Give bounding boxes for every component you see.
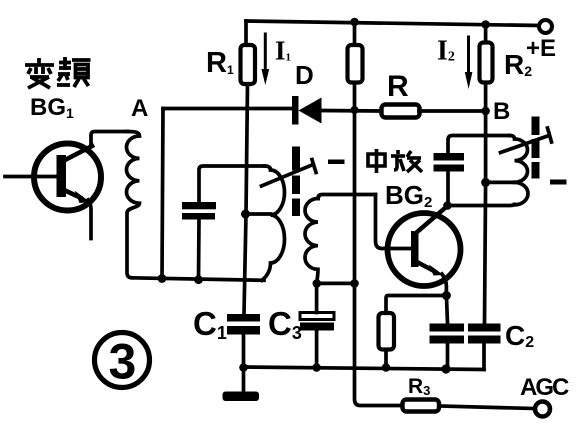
junction dot AGC bus left bbox=[313, 279, 322, 288]
wire R2 bottom lead bbox=[484, 83, 488, 112]
wire R3 to AGC terminal bbox=[439, 406, 534, 409]
wire T2 secondary top to BG2 base bbox=[318, 195, 376, 199]
svg-text:3: 3 bbox=[109, 334, 137, 390]
wire BG2 base feed bbox=[376, 195, 411, 249]
wire BG2 emitter to node bbox=[442, 274, 446, 296]
resistor R2 bbox=[480, 43, 493, 83]
transistor BG2 circle bbox=[388, 213, 461, 286]
diode D triangle bbox=[299, 98, 322, 124]
capacitor C1 plates bbox=[227, 314, 260, 322]
wire diode to R bbox=[321, 109, 381, 113]
transistor BG1 emitter arrowhead bbox=[75, 191, 91, 204]
junction dot bus A bbox=[158, 274, 167, 283]
resistor (AGC bias, unlabeled) bbox=[348, 45, 363, 83]
junction dot top rail left bbox=[350, 18, 359, 27]
wire C2a top lead bbox=[446, 296, 447, 324]
junction dot ground Re bbox=[382, 363, 391, 372]
wire mid resistor top lead bbox=[353, 22, 357, 45]
resistor R3 bbox=[403, 400, 440, 412]
resistor emitter (unlabeled) bbox=[379, 313, 395, 350]
svg-text:AGC: AGC bbox=[520, 374, 569, 401]
resistor R1 bbox=[241, 45, 256, 84]
svg-text:BG2: BG2 bbox=[385, 180, 432, 211]
wire +E top rail bbox=[246, 21, 539, 26]
svg-text:C1: C1 bbox=[193, 305, 227, 343]
capacitor C3 plates bbox=[300, 313, 334, 320]
junction dot AGC bus right bbox=[350, 279, 359, 288]
wire T3 tap bbox=[486, 181, 515, 185]
wire C3 top lead bbox=[315, 283, 319, 312]
wire C1 bottom lead bbox=[242, 335, 246, 368]
transistor BG2 emitter arrowhead bbox=[429, 265, 444, 276]
wire C3 bottom lead bbox=[315, 331, 319, 368]
wire node B vertical (B to C2 right) bbox=[485, 111, 486, 323]
wire C2a bottom lead bbox=[446, 344, 450, 370]
inductor L1 (BG1 collector coil) bbox=[127, 132, 140, 278]
current arrow I2 bbox=[467, 37, 470, 72]
wire AGC vertical (resistor bottom to R3) bbox=[355, 83, 403, 406]
wire node A vertical bbox=[162, 109, 163, 279]
junction dot top rail right bbox=[481, 20, 490, 29]
transistor BG2 collector bbox=[416, 208, 446, 234]
wire emitter node to resistor bbox=[386, 296, 446, 313]
svg-text:B: B bbox=[493, 98, 510, 125]
inductor T2 secondary bbox=[305, 199, 318, 284]
terminal +E bbox=[539, 20, 552, 33]
junction dot T3 tap bbox=[481, 178, 490, 187]
wire R to node B bbox=[419, 109, 486, 113]
dash mark T2 bbox=[328, 160, 345, 165]
junction dot T2 tap bbox=[241, 210, 250, 219]
wire T2 primary tap bbox=[246, 212, 271, 216]
wire ground rail bottom bbox=[244, 367, 485, 370]
arrow T2 trimmer bbox=[262, 165, 314, 187]
capacitor tank C (T2 primary, unlabeled) plates bbox=[182, 202, 216, 209]
wire R2 top lead bbox=[484, 25, 488, 43]
junction dot diode line bbox=[351, 106, 359, 114]
transistor BG1 base lead bbox=[5, 175, 55, 179]
svg-text:A: A bbox=[131, 95, 148, 122]
svg-text:C2: C2 bbox=[505, 320, 534, 351]
wire tank cap top lead bbox=[199, 166, 265, 202]
junction dot BG2 collector node bbox=[443, 201, 452, 210]
label 中放 (hand strokes) bbox=[368, 149, 422, 173]
wire emitter resistor bottom lead bbox=[384, 350, 388, 369]
junction dot bus cap bbox=[194, 275, 203, 284]
wire T3 cap top lead + tank top rail bbox=[448, 136, 510, 154]
svg-text:I2: I2 bbox=[437, 36, 455, 67]
current arrow I1 bbox=[264, 34, 267, 69]
junction dot emitter node bbox=[442, 291, 451, 300]
ground symbol stub bbox=[242, 368, 246, 392]
dash mark T3 bbox=[550, 180, 567, 185]
transistor BG1 collector bbox=[63, 146, 92, 161]
core T3 (dashed bar) bbox=[532, 117, 540, 136]
resistor R bbox=[382, 105, 420, 118]
junction dot ground C2a bbox=[441, 364, 450, 373]
wire T3 tank bottom rail bbox=[448, 204, 515, 205]
wire C2b bottom lead bbox=[482, 344, 486, 370]
svg-text:I1: I1 bbox=[275, 36, 291, 66]
transistor BG2 emitter bbox=[417, 262, 433, 271]
arrow T3 trimmer bbox=[501, 136, 550, 153]
wire R1 top lead bbox=[244, 21, 248, 45]
svg-text:R1: R1 bbox=[206, 47, 234, 79]
svg-text:+E: +E bbox=[526, 35, 556, 62]
label 变频 (hand strokes) bbox=[25, 57, 91, 88]
inductor T3 primary bbox=[510, 136, 529, 205]
transistor BG1 base bar bbox=[57, 155, 67, 197]
junction dot ground C3 bbox=[312, 363, 321, 372]
wire tank cap bottom lead bbox=[197, 219, 201, 280]
wire BG1 collector to coil bbox=[91, 132, 127, 146]
svg-text:BG1: BG1 bbox=[30, 94, 74, 121]
wire T3 cap bottom lead bbox=[446, 172, 450, 206]
inductor T2 primary bbox=[262, 166, 285, 280]
transistor BG1 emitter bbox=[64, 190, 80, 198]
transistor BG1 circle bbox=[34, 144, 101, 211]
svg-text:D: D bbox=[295, 60, 314, 90]
wire AGC bus bbox=[317, 282, 355, 286]
junction dot ground C1 bbox=[239, 363, 248, 372]
node B dot bbox=[481, 107, 490, 116]
svg-text:R: R bbox=[387, 70, 409, 103]
transistor BG2 base bar bbox=[411, 231, 419, 267]
capacitor tank C (T3, unlabeled) plates bbox=[434, 153, 465, 161]
wire node A horizontal bbox=[163, 107, 292, 111]
wire BG1 emitter stub bbox=[88, 200, 91, 239]
wire ground bus (left) bbox=[132, 278, 264, 281]
diode D cathode bar bbox=[292, 96, 299, 125]
capacitor C2b plates bbox=[468, 324, 501, 332]
ground symbol bar bbox=[223, 392, 260, 402]
terminal AGC bbox=[535, 402, 550, 417]
svg-text:R3: R3 bbox=[408, 375, 430, 398]
svg-text:C3: C3 bbox=[268, 305, 302, 343]
capacitor C2a plates bbox=[430, 324, 465, 332]
badge circle 3 bbox=[95, 333, 150, 388]
core T2 (dashed bar) bbox=[292, 147, 300, 171]
wire R1 bottom lead bbox=[244, 84, 248, 314]
